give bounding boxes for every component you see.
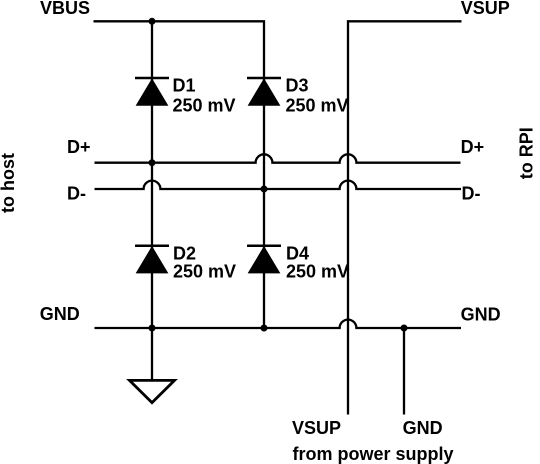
label D1 — [173, 75, 196, 95]
svg-text:250 mV: 250 mV — [286, 95, 349, 115]
label to RPI (rotated) — [517, 127, 537, 179]
junction GND / D3 column — [261, 325, 268, 332]
value label 250 mV (D4) — [286, 261, 349, 281]
svg-text:GND: GND — [40, 304, 80, 324]
junction VBUS / D1 column — [149, 18, 156, 25]
wire D- line with hops over x=152 and x=348 — [95, 181, 462, 189]
svg-text:GND: GND — [461, 305, 501, 325]
svg-text:250 mV: 250 mV — [286, 261, 349, 281]
net label VSUP (bottom) — [292, 418, 341, 438]
svg-text:D4: D4 — [286, 243, 309, 263]
svg-text:D-: D- — [462, 183, 481, 203]
wire D+ line with hops over x=264 and x=348 — [95, 154, 461, 162]
svg-text:D+: D+ — [461, 137, 485, 157]
node label D- (left) — [67, 183, 86, 203]
net label GND (left) — [40, 304, 80, 324]
node label D+ (left) — [67, 137, 91, 157]
wire GND stub column (x=404) — [403, 328, 405, 415]
junction D+ / D1 column — [149, 159, 156, 166]
junction D- / D3 column — [261, 186, 268, 193]
wire column D1/D2 (x=152) from VBUS rail to ground symbol — [151, 21, 153, 380]
label from power supply — [293, 444, 454, 464]
label D3 — [286, 75, 309, 95]
svg-text:VSUP: VSUP — [292, 418, 341, 438]
value label 250 mV (D3) — [286, 95, 349, 115]
net label VSUP (top right) — [461, 0, 510, 18]
svg-text:GND: GND — [403, 418, 443, 438]
svg-text:D+: D+ — [67, 137, 91, 157]
svg-text:VBUS: VBUS — [40, 0, 90, 18]
svg-text:to host: to host — [0, 153, 18, 213]
svg-text:VSUP: VSUP — [461, 0, 510, 18]
net label GND (right) — [461, 305, 501, 325]
node label D- (right) — [462, 183, 481, 203]
value label 250 mV (D2) — [173, 261, 236, 281]
svg-text:250 mV: 250 mV — [173, 261, 236, 281]
wire VSUP top-right rail with corner down at x=348 — [348, 21, 462, 414]
diode D1 — [135, 78, 169, 105]
diode D3 — [247, 78, 281, 105]
ground symbol — [130, 380, 175, 402]
label to host (rotated) — [0, 153, 18, 213]
svg-text:D-: D- — [67, 183, 86, 203]
diode D2 — [135, 246, 169, 273]
junction GND / D1 column — [149, 325, 156, 332]
wire GND line with hop over x=348 — [95, 320, 462, 328]
node label D+ (right) — [461, 137, 485, 157]
svg-text:250 mV: 250 mV — [173, 95, 236, 115]
svg-text:D1: D1 — [173, 75, 196, 95]
diode D4 — [247, 246, 281, 273]
svg-text:D3: D3 — [286, 75, 309, 95]
wire VBUS top rail (y=21) with corner down at x=264 — [94, 21, 265, 328]
label D4 — [286, 243, 309, 263]
junction GND / supply GND stub — [401, 325, 408, 332]
label D2 — [173, 243, 196, 263]
net label VBUS — [40, 0, 90, 18]
svg-text:to RPI: to RPI — [517, 127, 537, 179]
net label GND (bottom) — [403, 418, 443, 438]
svg-text:from power supply: from power supply — [293, 444, 454, 464]
value label 250 mV (D1) — [173, 95, 236, 115]
svg-text:D2: D2 — [173, 243, 196, 263]
